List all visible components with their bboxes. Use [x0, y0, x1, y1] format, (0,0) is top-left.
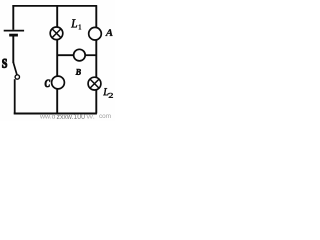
label L1 subscript 1: [79, 25, 81, 30]
wire battery to switch: [12, 36, 14, 63]
circle B: [74, 49, 86, 61]
label L1 (lamp): [71, 19, 77, 27]
lamp L2 circle: [88, 77, 101, 90]
lamp L2 cross: [90, 79, 99, 88]
wire lamp L2 to bottom rail: [95, 90, 97, 114]
label A (node): [105, 29, 112, 36]
wire right branch: top rail to circle A: [95, 5, 97, 27]
svg-text:ww.d: ww.d: [39, 114, 56, 121]
wire top rail: [12, 5, 97, 7]
switch S blade (open): [13, 62, 17, 74]
svg-text:com: com: [99, 113, 111, 120]
lamp L1 cross: [52, 29, 61, 38]
wire left rail upper (corner to battery): [12, 5, 14, 30]
wire circle C to bottom rail: [56, 89, 58, 114]
wire bottom rail: [14, 113, 97, 115]
label S (switch): [2, 59, 6, 68]
wire lamp L1 to circle C (through node at middle wire): [56, 40, 58, 77]
label C (node): [45, 80, 50, 87]
svg-text:zxxw.100: zxxw.100: [57, 114, 86, 121]
switch S contact circle: [15, 75, 19, 79]
circle A: [89, 27, 102, 40]
battery cell: long positive plate: [4, 30, 24, 32]
watermark text: [39, 113, 111, 121]
label B (node): [76, 69, 81, 75]
wire switch to bottom-left corner: [14, 79, 16, 113]
lamp L1 circle: [50, 27, 63, 40]
wire middle rail right (circle B to right branch): [85, 54, 97, 56]
label L2 (lamp): [103, 88, 108, 95]
label L2 subscript 2: [109, 93, 113, 98]
wire circle A to lamp L2 (through node at middle wire): [95, 40, 97, 78]
battery cell: short thick negative plate: [9, 34, 18, 37]
svg-text:w.: w.: [85, 114, 95, 120]
circle C: [52, 76, 65, 89]
wire left branch: top rail to lamp L1: [56, 5, 58, 27]
wire middle rail left (left branch to circle B): [57, 54, 74, 56]
